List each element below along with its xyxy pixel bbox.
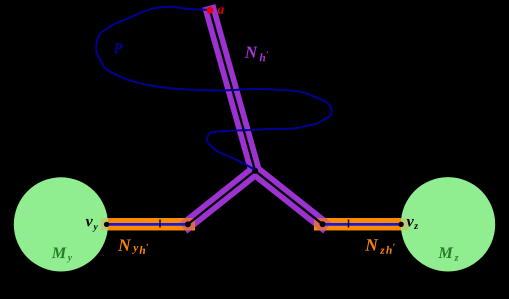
vertex v_y (black dot) — [104, 222, 109, 227]
junction dot right arm — [320, 221, 326, 227]
label v_z — [407, 219, 418, 229]
branch vertex of h' (black dot) — [252, 168, 258, 174]
tick on right band — [348, 220, 350, 228]
neighborhood N_yh' end overlap on M_y (khaki) — [101, 218, 109, 230]
label N_h' — [245, 47, 268, 62]
junction dot left arm — [185, 221, 191, 227]
edge h' (black core of purple stem) — [210, 10, 255, 171]
salmon overlap of right arm over orange band — [314, 218, 401, 230]
neighborhood N_zh' (orange band) — [314, 218, 401, 230]
neighborhood N_yh' (orange band) — [108, 218, 195, 230]
label a — [218, 7, 224, 13]
tick on left band — [159, 220, 161, 228]
label M_z — [438, 247, 458, 260]
label P — [113, 43, 122, 53]
label v_y — [86, 219, 98, 232]
neighborhood N_h' (purple band, stem) — [202, 4, 263, 178]
label M_y — [52, 247, 72, 262]
manifold M_z (green disk) — [401, 177, 495, 271]
label N_zh' — [365, 239, 395, 254]
edge zh' (blue core of right band) — [323, 223, 401, 226]
point a (red dot) — [207, 7, 214, 14]
neighborhood N_zh' end overlap on M_z (khaki) — [401, 218, 409, 230]
manifold M_y (green disk) — [14, 177, 108, 271]
edge h' left branch core — [188, 171, 255, 225]
label N_yh' — [118, 239, 148, 253]
edge h' right branch core — [255, 171, 323, 225]
salmon overlap of left arm over orange band — [108, 218, 195, 230]
neighborhood band, right arm of h' — [246, 162, 331, 234]
vertex v_z (black dot) — [398, 222, 403, 227]
edge yh' (blue core of left band) — [107, 223, 189, 226]
neighborhood band, left arm of h' — [179, 162, 264, 234]
path P (navy curve) — [96, 7, 331, 170]
